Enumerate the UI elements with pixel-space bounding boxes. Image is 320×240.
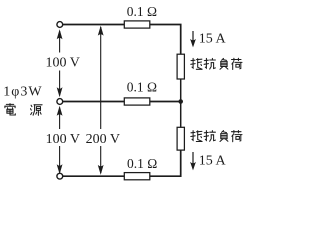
wire: load 1 bottom to middle-node junction [180,79,182,102]
svg-text:15 A: 15 A [199,154,227,169]
current arrow 15 A (upper) [192,31,194,46]
load resistor 2 (lower) [177,127,184,150]
wire: load 2 bottom to corner, bottom line back to terminal [63,150,181,176]
terminal (bottom) [57,173,63,179]
resistor 0.1 ohm (bottom line) [124,173,150,180]
dimension arrow 100 V (upper span) [59,31,61,96]
resistor 0.1 ohm (top line) [124,21,150,28]
load 2 label (resistive load) [191,131,202,142]
svg-text:200 V: 200 V [86,132,120,147]
dimension arrow 200 V (full span) [100,27,102,173]
svg-text:100 V: 100 V [46,132,80,147]
svg-text:15 A: 15 A [199,31,227,46]
source label kanji DEN (electric) [5,104,15,115]
junction node dot [178,99,183,104]
terminal (middle) [57,99,63,105]
wire: junction down to load 2 [180,102,182,128]
svg-text:0.1 Ω: 0.1 Ω [127,79,157,94]
wire: top line from terminal to right corner, down to load 1 [63,25,181,55]
terminal (top) [57,22,63,28]
resistor 0.1 ohm (middle line) [124,98,150,105]
svg-text:0.1 Ω: 0.1 Ω [127,4,157,19]
source label kanji GEN (source) [31,105,43,116]
wire: middle line from terminal to junction [63,101,181,103]
load resistor 1 (upper) [177,54,184,79]
dimension arrow 100 V (lower span) [59,108,61,173]
load 1 label (resistive load) [191,58,202,69]
svg-text:1φ3W: 1φ3W [3,84,42,99]
svg-text:0.1 Ω: 0.1 Ω [127,156,157,171]
current arrow 15 A (lower) [192,152,194,169]
svg-text:100 V: 100 V [46,56,80,71]
